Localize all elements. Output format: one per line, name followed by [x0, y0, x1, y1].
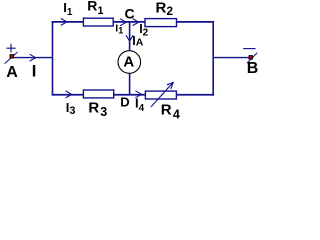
terminal A red dot: [10, 55, 13, 58]
wire: lead from terminal A to left vertical: [12, 57, 53, 59]
svg-text:I: I: [32, 63, 37, 81]
current arrow IA down into ammeter: [126, 35, 133, 41]
svg-text:I3: I3: [66, 100, 76, 117]
current arrow I3 into R3: [66, 91, 72, 98]
wire: left vertical (A node to top/bottom rails): [52, 21, 54, 96]
svg-text:R2: R2: [156, 0, 174, 18]
terminal B lead-in diagonal: [247, 53, 257, 63]
current arrow I1 into node C: [120, 19, 126, 26]
svg-text:I1: I1: [63, 0, 73, 18]
svg-text:D: D: [120, 94, 129, 109]
svg-text:B: B: [247, 60, 259, 77]
battery negative sign: [243, 48, 255, 50]
current arrow I1 into R1: [61, 18, 67, 25]
wire: bottom rail through R3, node D, R4: [52, 94, 214, 96]
ammeter circle: [118, 51, 141, 74]
current arrow I2 out of node C: [133, 19, 139, 26]
svg-text:R3: R3: [88, 100, 107, 120]
terminal B red dot: [249, 56, 252, 59]
wire: lead from right vertical to terminal B: [213, 57, 250, 59]
wire: right vertical (to B lead): [212, 21, 214, 96]
current arrow I on A lead: [30, 54, 36, 61]
svg-text:I4: I4: [135, 96, 145, 115]
svg-text:A: A: [123, 54, 134, 71]
current arrow I4 out of node D: [135, 91, 141, 98]
battery positive sign: [6, 44, 15, 53]
variable resistor R4 box: [145, 91, 176, 99]
resistor R2: [145, 19, 177, 27]
resistor R1: [83, 18, 113, 26]
terminal A lead-in diagonal: [5, 52, 18, 64]
resistor R3: [83, 90, 113, 98]
svg-text:A: A: [6, 64, 18, 81]
wire: middle branch C to D through ammeter: [129, 22, 131, 95]
svg-text:R4: R4: [161, 101, 180, 121]
variable resistor R4 wiper arrow: [151, 82, 173, 107]
svg-text:R1: R1: [87, 0, 103, 17]
svg-text:C: C: [125, 5, 135, 21]
wire: top rail through R1, node C, R2: [52, 21, 214, 23]
svg-text:IA: IA: [132, 34, 143, 49]
